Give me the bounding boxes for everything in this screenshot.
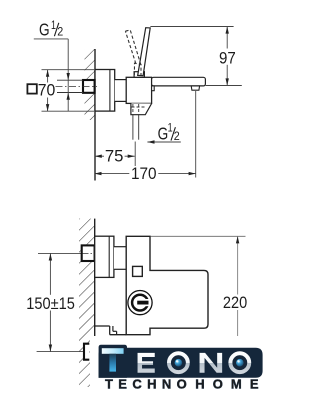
valve body [126,77,151,103]
svg-text:170: 170 [131,164,157,183]
dim 220 line [237,236,239,294]
connector sleeve [115,80,127,102]
logo navy plate [99,348,263,378]
extension line outlet center [134,142,136,178]
logo T block [99,345,127,378]
svg-text:75: 75 [105,147,124,166]
extension line spout tip [195,91,197,178]
supply nipple lines [57,79,83,81]
outlet nipple lines [132,115,134,140]
svg-text:97: 97 [219,48,236,67]
grohe emblem outer circle [128,291,152,315]
escutcheon face line [109,70,111,112]
svg-text:1: 1 [51,18,56,32]
150 bottom extension / lower outlet line [37,351,83,353]
svg-text:G: G [39,19,50,39]
grohe emblem ring [132,295,148,311]
wall line bottom [94,219,96,341]
dim text 170 (white backing) [129,166,158,180]
lever handle (solid) [138,28,151,76]
logo white patch [91,336,273,408]
wall hatching top [85,49,95,120]
dim 70 line [47,70,49,83]
lower escutcheon step [95,325,110,327]
texts top drawing [27,18,235,183]
leader G1/2 lower label [147,141,180,143]
body with spout tab [126,236,208,334]
dim 97 extension lines [150,26,233,28]
dim 70 extension lines [42,69,95,71]
arrowheads bottom drawing [49,253,52,260]
logo letter E [137,352,155,373]
logo letter O1 [166,350,191,375]
dim G1/2 top label underline + leader [34,38,68,40]
grohe emblem bar [137,301,148,305]
small square detail [133,266,143,276]
svg-text:70: 70 [38,81,56,100]
connector sleeve bottom drawing [114,247,126,270]
svg-text:220: 220 [223,293,247,312]
dim 220 extension [151,235,246,237]
arrowheads top drawing [67,73,70,80]
svg-text:2: 2 [174,129,180,143]
wall line top [94,49,96,181]
union nut (in wall) [83,80,95,93]
centerline of supply [56,85,98,87]
dim 170 line [94,173,195,175]
lever cap [134,72,144,78]
outlet hidden lines [132,106,147,108]
logo T inner bar [102,348,124,354]
dim 97 line [226,27,228,49]
nipple through wall [95,251,98,258]
lower wall union bracket [84,344,89,360]
wall hatching bottom [79,219,95,387]
aerator [191,86,199,90]
escutcheon front [95,236,114,277]
spout shoulder stub [152,86,155,91]
dim 75 line [95,155,104,157]
label square 70 [27,84,36,93]
logo letter N [199,352,223,373]
logo letter O2 [227,350,252,375]
spout [152,77,206,86]
dim 150 line [49,253,51,294]
svg-text:1: 1 [168,120,173,134]
logo T inner stem [109,354,116,372]
bottom outlet housing [131,103,152,114]
escutcheon (side) [95,70,115,112]
union nut upper [82,245,95,261]
supply pipe line / 150 top extension [38,252,82,254]
lever handle (alternate, dashed) [125,31,135,63]
svg-text:2: 2 [57,24,63,38]
svg-text:150±15: 150±15 [26,294,75,313]
